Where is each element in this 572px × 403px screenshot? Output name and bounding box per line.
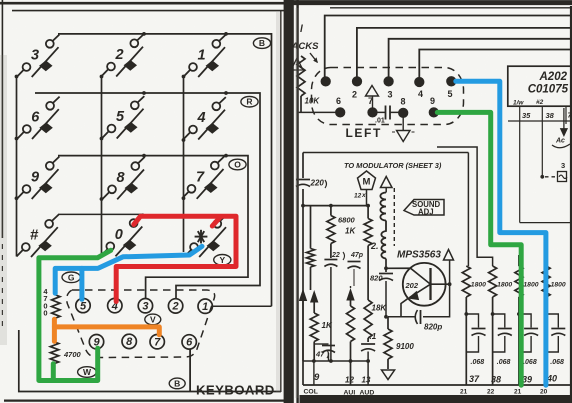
wire bus to pin1 <box>325 16 572 78</box>
node label V <box>145 314 161 325</box>
SOUND ADJ flag <box>404 200 444 216</box>
wire orange <box>54 319 159 341</box>
resistor 4700 (lower) <box>50 342 58 364</box>
wire row bus 4 (Y row, black part) <box>58 213 144 215</box>
wire to pin6 <box>298 111 336 113</box>
lower tiny pins <box>460 389 548 396</box>
arrow up C <box>346 286 354 301</box>
wire row bus 3 (O row) <box>58 154 248 299</box>
wire column bus 3 <box>182 75 186 252</box>
arrow + AC note <box>552 108 570 148</box>
wire top rail of modulator box <box>303 152 468 154</box>
pin p7 <box>368 108 377 117</box>
frame right panel borders <box>290 3 572 403</box>
pin p8 <box>399 109 408 118</box>
pin p3 <box>384 77 393 86</box>
connector pin 5 (kp5) <box>76 298 90 312</box>
wire bus to pin3 <box>389 39 572 77</box>
resistor 18K <box>364 258 372 342</box>
core (dashed) <box>393 188 395 246</box>
switch key 6 <box>18 97 60 139</box>
switch key * <box>185 215 227 257</box>
pin p1 <box>321 77 330 86</box>
resistor 1800 #3 <box>515 255 523 385</box>
labels under IC <box>513 99 544 107</box>
resistor left chain <box>307 206 315 290</box>
wire rail to R1800-1 <box>303 152 468 154</box>
inductor L1 lower <box>381 221 386 259</box>
connector pin 9 (kp9) <box>89 335 103 349</box>
resistor 1800 #4 <box>542 255 550 385</box>
capacitor .068 #1 <box>464 312 485 352</box>
resistor 1800 #2 <box>489 266 497 385</box>
capacitor .1 <box>361 344 375 385</box>
connector pin 4 (kp4) <box>108 298 122 312</box>
LEFT connector shell (dashed) <box>312 68 464 125</box>
pin p4 <box>415 78 424 87</box>
wire column bus 1 <box>15 75 19 257</box>
transistor MPS3563 <box>384 263 451 317</box>
pin p6 <box>336 108 345 117</box>
divider band between panels <box>284 0 298 403</box>
node label Y <box>214 254 231 265</box>
resistor 1K (upper) <box>364 206 372 258</box>
arrow above coil <box>381 177 393 193</box>
resistor 1800 #1 <box>462 266 470 385</box>
capacitor .01 <box>377 106 399 120</box>
connector M <box>358 171 376 206</box>
capacitor .068 #3 <box>517 312 538 352</box>
resistor 4700 (upper) <box>52 295 60 318</box>
node label G <box>62 272 80 283</box>
dashed link to crystal <box>540 172 567 182</box>
wire riser R1 <box>467 153 469 267</box>
wire row bus 2 (R row) <box>35 91 260 298</box>
pin p9 <box>429 108 438 117</box>
frame left panel borders <box>0 0 285 401</box>
node label W <box>78 367 97 378</box>
ground triangle <box>382 370 395 380</box>
capacitor 47f <box>314 344 335 361</box>
node label O <box>229 159 246 170</box>
node label R <box>241 96 258 107</box>
keyboard connector shell (dashed) <box>67 290 215 358</box>
wire pin6 down to frame <box>189 349 191 391</box>
paper noise overlay <box>0 0 1 1</box>
connector pin 1 (kp1) <box>198 299 212 313</box>
wire blue (right panel) <box>456 81 546 385</box>
resistor 6800 <box>327 206 335 258</box>
wire red <box>116 216 236 301</box>
collector supply triangle <box>444 250 454 261</box>
resistor mid <box>347 301 355 386</box>
connector pin 8 (kp8) <box>122 334 136 348</box>
capacitor .068 #4 <box>544 312 565 352</box>
switch key 0 <box>101 214 143 256</box>
feedback loop 820p <box>388 261 450 325</box>
wire row bus 1 (B row) <box>58 32 272 306</box>
switch key 7 <box>182 156 224 198</box>
switch key 4 <box>184 97 226 139</box>
wire green (left panel) <box>39 250 111 380</box>
resistor 1K (lower-left) <box>310 303 318 362</box>
wire left border chain <box>302 153 304 386</box>
connector pin 3 (kp3) <box>138 299 152 313</box>
IC A202 C01075 <box>508 66 572 106</box>
wire blue (left panel) <box>55 246 202 299</box>
capacitor 220p <box>296 180 310 187</box>
switch key 2 <box>102 34 144 76</box>
connector pin 2 (kp2) <box>168 299 182 313</box>
arrow up B <box>310 290 318 313</box>
switch key 9 <box>17 157 59 199</box>
switch key # <box>17 215 59 257</box>
IC pin numbers 37-40 <box>469 374 557 385</box>
jack symbol <box>291 58 303 70</box>
supply arrow above pin7 <box>366 86 379 109</box>
bottom pin labels <box>304 372 375 397</box>
wire green (right panel) <box>437 112 521 385</box>
wire bus to pin2 <box>357 28 572 77</box>
wire bias rail <box>301 204 370 208</box>
switch key 8 <box>103 157 145 199</box>
wire bus to pin4 <box>419 50 572 78</box>
resistor 9100 <box>384 317 392 369</box>
pin numbers <box>336 89 453 107</box>
node label B2 <box>169 378 185 389</box>
arrow up A <box>299 289 307 362</box>
node label B <box>253 38 270 49</box>
wire riser R2 <box>437 147 493 266</box>
pin p2 <box>353 77 362 86</box>
inductor L1 upper <box>380 193 386 221</box>
IC pin cells <box>508 106 572 222</box>
capacitor 47p <box>348 262 361 287</box>
wire column bus 2 <box>100 75 104 255</box>
connector pin 7 (kp7) <box>150 335 164 349</box>
resistor 10K <box>297 56 305 112</box>
capacitor 22p <box>324 260 337 362</box>
switch key 1 <box>184 35 226 77</box>
wire pin1 to B riser <box>213 305 272 307</box>
switch key 5 <box>102 96 144 138</box>
ground below pin8 <box>392 118 415 142</box>
connector pin 6 (kp6) <box>182 335 196 349</box>
wire bottom junction rail <box>303 359 370 385</box>
switch key 3 <box>17 35 59 77</box>
capacitor .068 #2 <box>491 312 512 352</box>
capacitor 820 <box>379 259 393 319</box>
label jacks <box>291 24 320 63</box>
pin p5 <box>447 77 456 86</box>
